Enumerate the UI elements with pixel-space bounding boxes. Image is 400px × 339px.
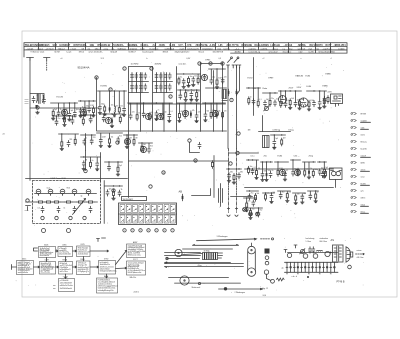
resistor R33 xyxy=(233,173,235,181)
junction J41 xyxy=(141,142,142,143)
wire IF column 6 xyxy=(200,63,202,132)
wire stub C2 xyxy=(68,103,70,111)
wire stub R14 xyxy=(196,90,198,91)
tube V9 (AF driver) xyxy=(279,96,287,104)
svg-text:24: 24 xyxy=(3,134,5,136)
wire osc column xyxy=(253,58,255,116)
svg-text:665C: 665C xyxy=(22,259,27,261)
svg-text:ku0adbg88ztzzgk.5kr: ku0adbg88ztzzgk.5kr xyxy=(98,289,114,292)
tube V11 (magic eye) xyxy=(124,138,130,144)
wire antenna coil link xyxy=(30,94,44,98)
wire stub R48 xyxy=(250,208,252,209)
tuner wafer W4 xyxy=(72,189,77,195)
svg-text:A-NV: A-NV xyxy=(210,44,216,47)
svg-text:r187e: r187e xyxy=(361,196,366,199)
switch column number 5 xyxy=(155,229,158,232)
tube V8 (AF pre) xyxy=(212,110,218,116)
dipole arrow A2 xyxy=(234,59,238,63)
wire IF column 7 xyxy=(213,71,215,132)
wire stub R32 xyxy=(141,143,143,145)
capacitor C62 xyxy=(106,190,109,196)
junction J39 xyxy=(126,134,127,135)
wire front-end bus xyxy=(30,107,99,109)
svg-text:D7DTCK08L: D7DTCK08L xyxy=(74,45,88,47)
wire arrow B1-B2 xyxy=(56,250,59,252)
junction J67 xyxy=(117,161,118,162)
svg-text:00B1: 00B1 xyxy=(62,245,66,247)
svg-text:4: 4 xyxy=(148,230,149,232)
pilot lamp LP3 xyxy=(249,212,253,216)
ground G-ant xyxy=(36,111,40,114)
test point TP-a xyxy=(230,98,233,101)
capacitor C-ant xyxy=(43,97,46,103)
svg-text:4lbtffkt: 4lbtffkt xyxy=(235,51,242,54)
svg-text:extern: extern xyxy=(357,249,362,252)
svg-text:5k6: 5k6 xyxy=(257,193,260,195)
svg-text:1k: 1k xyxy=(310,168,312,170)
capacitor C57 xyxy=(270,193,273,199)
ground GND32 xyxy=(125,146,129,149)
wire stub R20 xyxy=(210,103,212,111)
junction J21 xyxy=(222,68,223,69)
junction J47 xyxy=(248,159,249,160)
block R1 (Lautspr. 1) xyxy=(127,244,146,258)
svg-text:800 Ohm: 800 Ohm xyxy=(320,241,328,243)
svg-text:2n: 2n xyxy=(158,110,160,112)
wire-cluster30 cluster bus xyxy=(303,161,316,163)
dial cord top line xyxy=(197,238,257,241)
tuner capacitor TCC3 xyxy=(73,206,76,212)
pointer rail circle b xyxy=(265,261,269,265)
svg-text:4-8 Ohm: 4-8 Ohm xyxy=(357,257,364,259)
svg-text:b-5n: b-5n xyxy=(141,48,146,50)
wire stub R19 xyxy=(178,103,180,112)
svg-text:kb74f: kb74f xyxy=(55,52,61,54)
capacitor C46 xyxy=(228,173,231,179)
mains transformer TR1 windings xyxy=(333,96,342,101)
potentiometer P2 xyxy=(300,249,305,254)
capacitor C22 xyxy=(179,93,182,99)
margin mark left lower xyxy=(25,210,29,212)
capacitor C14 (IF-can T2) xyxy=(135,84,138,90)
capacitor C50 xyxy=(251,168,254,174)
wire stub R40 xyxy=(304,162,306,169)
svg-text:0-v96: 0-v96 xyxy=(309,52,315,54)
resistor R36 xyxy=(248,166,250,174)
junction J49 xyxy=(262,161,263,162)
capacitor C43 xyxy=(117,137,120,143)
svg-text:EL84: EL84 xyxy=(278,156,284,158)
svg-text:2KD.7777G: 2KD.7777G xyxy=(227,45,239,47)
junction J63 xyxy=(119,185,120,186)
svg-text:98,6: 98,6 xyxy=(67,188,70,190)
svg-text:2: 2 xyxy=(151,68,152,70)
switch circle SW-b xyxy=(313,254,318,259)
wire-cluster7 cluster bus xyxy=(177,73,201,75)
svg-text:niederohm: niederohm xyxy=(320,238,329,240)
wire stub R12 xyxy=(197,74,199,77)
svg-text:68k: 68k xyxy=(264,170,267,172)
margin mark left upper xyxy=(25,100,29,104)
wire stub R13 xyxy=(185,90,187,91)
connector pin X9 xyxy=(351,169,356,171)
wire IF top link B xyxy=(201,63,223,65)
capacitor C35 xyxy=(274,100,277,106)
connector pin X15 xyxy=(351,211,356,213)
junction J32 xyxy=(280,90,281,91)
svg-text:10n: 10n xyxy=(250,166,253,168)
electrolytic CE4 xyxy=(216,111,218,118)
cord segment b xyxy=(183,254,203,255)
svg-text:1: 1 xyxy=(124,230,125,232)
connector pin X5 xyxy=(351,141,356,143)
svg-text:8: 8 xyxy=(96,77,97,79)
svg-text:TASTENSATZ: TASTENSATZ xyxy=(123,198,134,201)
resistor R14 xyxy=(196,91,198,99)
resistor R50 xyxy=(61,140,63,148)
drum hub detail xyxy=(218,253,223,258)
junction J64 xyxy=(61,133,62,134)
wire stub C9 xyxy=(99,91,101,104)
wire-cluster28 cluster bus xyxy=(275,161,289,163)
capacitor C52 xyxy=(269,171,272,177)
input bracket to B1 xyxy=(34,248,38,251)
wire stub R38 xyxy=(277,162,279,169)
tuner wafer W1 xyxy=(36,189,41,195)
filter section tap 6 xyxy=(304,262,306,272)
svg-text:amzs k1ebv4h-: amzs k1ebv4h- xyxy=(89,52,103,54)
capacitor C54 xyxy=(292,170,295,176)
tuner wafer W2 xyxy=(48,189,53,195)
capacitor C64 xyxy=(67,140,70,146)
svg-text:ECC85: ECC85 xyxy=(57,97,64,99)
capacitor C13 (IF-can T2) xyxy=(144,73,147,79)
resistor R45 xyxy=(286,192,288,200)
wire-cluster4 cluster bus xyxy=(80,114,95,116)
svg-text:2: 2 xyxy=(132,230,133,232)
wire AM line xyxy=(227,66,229,149)
wire stub R44 xyxy=(265,192,267,194)
svg-text:0,1: 0,1 xyxy=(170,111,172,113)
tuner capacitor TCC1 xyxy=(41,206,44,212)
svg-text:2o059i6sl3amkk: 2o059i6sl3amkk xyxy=(60,288,72,290)
connector pin X8 xyxy=(351,162,356,164)
svg-text:5 Ohm: 5 Ohm xyxy=(306,241,312,243)
wire stub C60 xyxy=(309,191,311,193)
svg-text:tvz7uv: tvz7uv xyxy=(224,47,231,50)
switch cell column S7 xyxy=(158,205,163,213)
svg-text:mgu1: mgu1 xyxy=(38,48,44,50)
wire tone line xyxy=(100,153,102,182)
svg-text:59ebg3r1emd82nmt5u: 59ebg3r1emd82nmt5u xyxy=(100,270,117,273)
resistor R28 xyxy=(308,100,310,108)
wire-cluster26 cluster bus xyxy=(247,159,259,161)
resistor R17 xyxy=(149,112,151,120)
svg-text:Z846TLFNL: Z846TLFNL xyxy=(196,44,209,47)
wire stub CE5 xyxy=(266,162,268,171)
resistor R12 xyxy=(197,76,199,84)
tuner resistor TR5 xyxy=(77,201,85,203)
wire tuner box feed xyxy=(26,178,128,180)
title block left edge tail xyxy=(23,50,25,57)
wire IF can join A xyxy=(129,82,149,93)
svg-text:EF89: EF89 xyxy=(269,78,275,80)
filter section tap 5 xyxy=(301,262,303,272)
svg-text:CE234-.: CE234-. xyxy=(141,44,150,47)
svg-text:0,1: 0,1 xyxy=(286,170,288,172)
junction J33 xyxy=(285,90,286,91)
choke CH1 leads xyxy=(220,184,222,207)
wire arrow B2-B3 xyxy=(73,250,77,252)
svg-text:C025: C025 xyxy=(80,244,84,246)
svg-text:617lgt3guc47s: 617lgt3guc47s xyxy=(78,270,89,273)
svg-text:30 Wdg: 30 Wdg xyxy=(204,250,210,252)
wire A5 drop to C2 xyxy=(106,274,108,278)
svg-text:m2r5: m2r5 xyxy=(361,133,365,136)
svg-text:89738: 89738 xyxy=(361,113,366,115)
capacitor C49 xyxy=(273,139,276,145)
junction J38 xyxy=(91,134,92,135)
resistor R24 xyxy=(269,99,271,107)
switch cell column S9 xyxy=(170,205,175,213)
svg-text:379D: 379D xyxy=(104,259,109,261)
junction J35 xyxy=(295,90,296,91)
svg-text:-cd-7h.dc: -cd-7h.dc xyxy=(323,48,333,50)
wire-cluster32 cluster bus xyxy=(247,190,259,192)
ground GND49 xyxy=(112,197,116,200)
resistor R46 xyxy=(295,194,297,202)
capacitor C-m1 xyxy=(198,142,201,148)
test point circle 4 xyxy=(209,62,212,65)
junction J61 xyxy=(258,207,259,208)
svg-text:25u: 25u xyxy=(121,115,124,117)
svg-text:0,1: 0,1 xyxy=(276,99,278,101)
junction J62 xyxy=(113,185,114,186)
svg-text:9: 9 xyxy=(110,89,111,91)
ground GND16 xyxy=(184,98,188,101)
svg-text:24,6: 24,6 xyxy=(263,295,267,297)
tuner capacitor TCC2 xyxy=(57,206,60,212)
wire stub R2 xyxy=(63,103,65,110)
antenna terminal T1 xyxy=(27,58,34,61)
svg-text:3p9: 3p9 xyxy=(71,110,74,112)
ground GND17 xyxy=(190,98,194,101)
ground GND20 xyxy=(155,118,159,121)
tube V14 (AF out right) xyxy=(294,169,300,175)
svg-text:10n: 10n xyxy=(248,201,251,203)
cord loop verticals xyxy=(248,243,256,271)
resistor R4 xyxy=(84,106,86,114)
cord hub black xyxy=(224,287,227,290)
wire ratio det link xyxy=(259,131,291,133)
dipole arrow A1 xyxy=(228,59,232,63)
svg-text:5k6: 5k6 xyxy=(187,90,190,92)
wire stub CE1 xyxy=(109,91,111,106)
ground GND3 xyxy=(68,118,72,121)
svg-text:5ff: 5ff xyxy=(82,48,85,50)
tuner bottom circle b xyxy=(67,229,71,233)
svg-text:10n: 10n xyxy=(164,112,167,114)
capacitor C67 xyxy=(108,165,111,171)
svg-text:ltv3fkn7: ltv3fkn7 xyxy=(129,51,137,54)
connector pin X12 xyxy=(351,190,356,192)
junction J48 xyxy=(252,159,253,160)
junction J58 xyxy=(265,192,266,193)
wire AF coupling xyxy=(129,160,229,162)
wire-cluster16 cluster bus xyxy=(294,90,302,92)
resistor R32 xyxy=(141,144,143,152)
wire stub R16 xyxy=(136,103,138,113)
svg-text:c2: c2 xyxy=(263,58,265,60)
tuner chain row 2 wire xyxy=(26,201,98,203)
svg-text:34D6: 34D6 xyxy=(44,245,48,247)
filter section tap 7 xyxy=(308,262,310,272)
resistor R30 xyxy=(109,137,111,145)
wire-cluster15 cluster bus xyxy=(279,90,293,92)
twin lead second conductor xyxy=(237,68,240,95)
tuner resistor TR1 xyxy=(37,201,45,203)
svg-text:itfd-15ct63v6d1: itfd-15ct63v6d1 xyxy=(59,253,71,256)
test point circle 8 xyxy=(95,76,98,79)
capacitor C55 xyxy=(318,169,321,175)
svg-text:DGALG5BES: DGALG5BES xyxy=(255,44,270,47)
svg-text:v6ack8ce: v6ack8ce xyxy=(283,52,293,54)
svg-text:EL84: EL84 xyxy=(307,86,313,88)
capacitor C3 xyxy=(73,110,76,116)
svg-text:kbfg l2l: kbfg l2l xyxy=(111,52,118,54)
capacitor C-o1 xyxy=(309,247,312,253)
block B1 (ZF Verst.) xyxy=(39,247,56,258)
wire-cluster12 cluster bus xyxy=(203,102,226,104)
wire-cluster17 cluster bus xyxy=(307,90,317,92)
filter section tap 4 xyxy=(297,262,299,272)
resistor R49 xyxy=(113,189,115,197)
cord eyelet small xyxy=(198,282,200,284)
wire stub C4 xyxy=(56,116,58,119)
svg-text:Z-E: Z-E xyxy=(153,45,157,47)
tuner resistor TR4 xyxy=(65,201,73,203)
coil L-o1 xyxy=(317,249,323,252)
block A2 (Mischstufe) xyxy=(40,262,56,275)
svg-text:5: 5 xyxy=(156,230,157,232)
mains transformer TR1 can xyxy=(331,94,343,104)
filter section tap 2 xyxy=(290,262,292,272)
svg-text:19hck: 19hck xyxy=(79,52,86,54)
external wiring arrow xyxy=(356,253,365,255)
svg-text:220: 220 xyxy=(93,137,96,139)
wire output bus xyxy=(288,252,338,254)
switch cell column S2 xyxy=(126,205,131,213)
ground GND19 xyxy=(215,86,219,89)
tuner wafer W5 xyxy=(86,189,91,195)
resistor R8 xyxy=(118,106,120,114)
wire arrow A4-A5 xyxy=(90,266,99,268)
cord double run xyxy=(165,263,244,268)
ground GND29 xyxy=(323,105,327,108)
capacitor C29 xyxy=(168,112,171,118)
resistor R34 xyxy=(246,201,248,209)
tube V10 (output) xyxy=(299,98,308,107)
svg-text:-2n72c8: -2n72c8 xyxy=(46,48,55,50)
resistor R35 xyxy=(281,138,283,146)
capacitor C18 (IF-can T3) xyxy=(159,84,162,90)
wire A5 to R2 diagonal xyxy=(116,267,127,269)
antenna trimmer C2 xyxy=(32,96,35,102)
wire stub C10 xyxy=(123,91,125,106)
tube V6 (limiter) xyxy=(157,113,163,119)
title block table frame xyxy=(24,43,347,53)
svg-text:1k: 1k xyxy=(82,107,84,109)
IF transformer winding IF-can T3.21 L8 xyxy=(155,86,159,89)
wire arrow A2-A3 xyxy=(56,266,59,268)
junction J10 xyxy=(90,114,91,115)
ratio detector transformer T6 xyxy=(263,136,270,148)
ground GND39 xyxy=(265,178,269,181)
junction J23 xyxy=(156,102,157,103)
capacitor C66 xyxy=(96,161,99,167)
svg-text:2n: 2n xyxy=(272,170,274,172)
capacitor C4 xyxy=(55,119,58,125)
svg-text:zzea: zzea xyxy=(104,48,109,50)
capacitor C6 xyxy=(79,108,82,114)
resistor R41 xyxy=(312,169,314,177)
test point TP-b xyxy=(116,141,119,144)
svg-text:68k: 68k xyxy=(92,115,95,117)
svg-text:5k6: 5k6 xyxy=(207,111,210,113)
wire-cluster10 cluster bus xyxy=(128,102,173,104)
svg-text:5.6k: 5.6k xyxy=(294,156,298,158)
speaker cone profile xyxy=(346,247,351,263)
svg-text:Skalenseil: Skalenseil xyxy=(192,287,201,289)
wire-cluster29 cluster bus xyxy=(291,159,301,161)
wire-cluster22 cluster bus xyxy=(139,142,153,144)
tube V2 (mixer) xyxy=(80,109,86,115)
svg-text:0,5: 0,5 xyxy=(38,208,40,210)
wire stub R51 xyxy=(74,134,76,138)
svg-text:8n2: 8n2 xyxy=(150,146,153,148)
svg-text:5k6: 5k6 xyxy=(143,144,146,146)
ground GND27 xyxy=(307,108,311,111)
ground GND8 xyxy=(98,111,102,114)
svg-text:15k: 15k xyxy=(111,137,114,139)
capacitor C32 xyxy=(204,112,207,118)
svg-text:6: 6 xyxy=(170,96,171,98)
svg-text:EM80: EM80 xyxy=(323,86,329,88)
svg-text:bm3vvzu76: bm3vvzu76 xyxy=(188,48,200,50)
pulley P2 xyxy=(248,246,256,254)
junction J50 xyxy=(266,161,267,162)
wire stub R15 xyxy=(216,69,218,79)
svg-text:8eac2: 8eac2 xyxy=(199,52,206,54)
svg-text:47k: 47k xyxy=(70,139,73,141)
svg-text:0,5M: 0,5M xyxy=(218,78,222,80)
svg-text:l4o--ui6-osg: l4o--ui6-osg xyxy=(41,272,50,274)
junction J6 xyxy=(80,100,81,101)
resistor R53 xyxy=(117,165,119,173)
junction J2 xyxy=(74,102,75,103)
wire stub R24 xyxy=(269,93,271,99)
block A4 (Demodulator) xyxy=(77,261,91,275)
antenna terminal row xyxy=(227,65,241,68)
svg-text:5k6: 5k6 xyxy=(266,99,269,101)
test point circle 10 xyxy=(162,171,165,174)
wire-cluster41 cluster bus xyxy=(105,161,123,163)
svg-text:sfbc38r9v3l: sfbc38r9v3l xyxy=(213,51,224,54)
tuner bottom circle a xyxy=(42,229,46,233)
svg-text:va9t6f1a6: va9t6f1a6 xyxy=(165,47,175,50)
capacitor C33 xyxy=(252,99,255,105)
wire-cluster23 cluster bus xyxy=(227,168,242,170)
